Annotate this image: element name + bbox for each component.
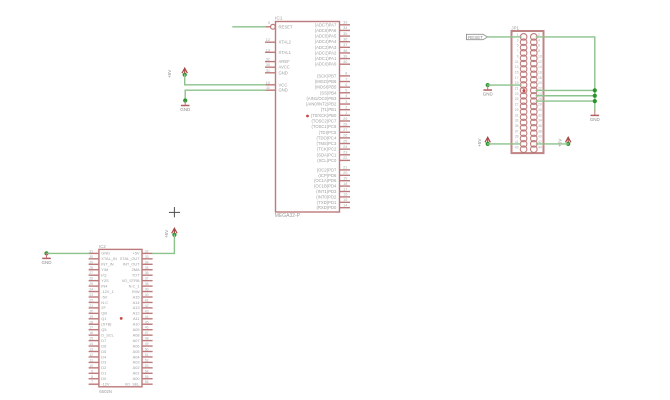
wire: JP1 pin 42 to +5V: [537, 143, 569, 145]
IC1 pin 9 /RESET (active-low bubble): [265, 21, 293, 29]
svg-text:GND: GND: [101, 251, 110, 256]
svg-text:INT_OUT: INT_OUT: [123, 262, 140, 267]
wire: JP1 pin 26 to ground rail: [536, 100, 595, 102]
svg-text:50: 50: [145, 348, 149, 352]
svg-text:28: 28: [343, 122, 347, 126]
junction ground rail / pin 26: [593, 99, 597, 103]
svg-text:(TOSC1)PC6: (TOSC1)PC6: [311, 124, 336, 129]
svg-text:53: 53: [145, 364, 149, 368]
supply +5V symbol at IC2: [164, 228, 177, 238]
IC1 port C pin names: [311, 119, 336, 163]
svg-text:38: 38: [538, 129, 542, 133]
svg-text:23: 23: [89, 293, 93, 297]
svg-text:XTAL_IN: XTAL_IN: [101, 256, 117, 261]
svg-text:(ADC0)PA0: (ADC0)PA0: [315, 62, 337, 67]
svg-text:8: 8: [345, 72, 347, 76]
IC2 origin mark: [120, 317, 123, 320]
IC2 left pin names: [101, 251, 117, 387]
svg-text:Y/M: Y/M: [101, 267, 108, 272]
svg-text:49: 49: [145, 342, 149, 346]
svg-text:6: 6: [345, 83, 347, 87]
svg-text:21: 21: [343, 166, 347, 170]
svg-text:-12V: -12V: [101, 382, 110, 387]
JP1 odd pin numbers: [515, 33, 519, 149]
svg-text:29: 29: [89, 260, 93, 264]
svg-text:35: 35: [343, 32, 347, 36]
junction ground rail / pin 24: [593, 94, 597, 98]
svg-text:(SDA)PC1: (SDA)PC1: [317, 152, 337, 157]
svg-text:+5V: +5V: [133, 251, 140, 256]
svg-text:43: 43: [515, 145, 519, 149]
svg-text:(T0/XCK)PB0: (T0/XCK)PB0: [311, 113, 337, 118]
svg-text:(TDI)PC5: (TDI)PC5: [319, 130, 337, 135]
svg-text:D4: D4: [101, 354, 107, 359]
svg-text:R/W: R/W: [132, 289, 140, 294]
svg-text:(STB): (STB): [101, 322, 112, 327]
svg-text:Q5: Q5: [101, 327, 106, 332]
junction at JP1 right +5V: [566, 142, 570, 146]
svg-text:48: 48: [145, 337, 149, 341]
svg-text:(MOSI)PB5: (MOSI)PB5: [315, 85, 337, 90]
svg-text:+5V: +5V: [167, 69, 172, 78]
svg-text:14: 14: [343, 204, 347, 208]
svg-text:37: 37: [145, 277, 149, 281]
svg-text:16: 16: [538, 70, 542, 74]
svg-text:18: 18: [343, 182, 347, 186]
svg-text:A07: A07: [133, 338, 140, 343]
svg-text:28: 28: [538, 103, 542, 107]
svg-text:9: 9: [91, 369, 93, 373]
IC1 reference designator label: [275, 15, 283, 21]
svg-text:34: 34: [343, 26, 347, 30]
svg-text:14: 14: [538, 65, 542, 69]
svg-text:QB: QB: [101, 311, 107, 316]
svg-text:14: 14: [89, 342, 93, 346]
svg-text:34: 34: [145, 260, 149, 264]
ground symbol below IC1: [180, 101, 191, 113]
IC1 origin mark: [306, 115, 309, 118]
svg-text:18: 18: [538, 76, 542, 80]
IC1 port C pins PC7-PC0 (29-22): [340, 121, 351, 160]
svg-text:(SCL)PC0: (SCL)PC0: [317, 158, 337, 163]
svg-text:35: 35: [145, 266, 149, 270]
svg-text:VCC: VCC: [279, 82, 288, 87]
svg-text:33: 33: [145, 255, 149, 259]
svg-text:36: 36: [538, 124, 542, 128]
svg-text:7: 7: [517, 49, 519, 53]
svg-text:GND: GND: [590, 117, 601, 122]
svg-text:(INT0)PD2: (INT0)PD2: [316, 194, 337, 199]
svg-text:(AIN1/OC0)PB3: (AIN1/OC0)PB3: [307, 96, 337, 101]
svg-text:38: 38: [145, 282, 149, 286]
svg-text:GND: GND: [279, 88, 288, 93]
svg-text:13: 13: [266, 48, 270, 52]
svg-text:55: 55: [145, 375, 149, 379]
IC2 body rectangle: [99, 249, 142, 386]
svg-text:IC2: IC2: [99, 244, 106, 249]
svg-text:20: 20: [89, 309, 93, 313]
svg-text:16: 16: [89, 331, 93, 335]
IC IC1 microcontroller MEGA32-P body: [276, 22, 340, 213]
wire: IC1 GND pin 11 to ground: [185, 90, 265, 100]
svg-text:32: 32: [538, 113, 542, 117]
svg-text:24: 24: [89, 288, 93, 292]
ground symbol left of JP1: [483, 85, 494, 97]
svg-text:22: 22: [89, 298, 93, 302]
svg-text:31: 31: [89, 249, 93, 253]
svg-text:12: 12: [89, 353, 93, 357]
svg-text:XTAL2: XTAL2: [279, 40, 292, 45]
IC2 left pins 1-24: [89, 253, 99, 384]
svg-text:A14: A14: [133, 300, 141, 305]
svg-text:24: 24: [343, 145, 347, 149]
svg-text:7: 7: [91, 380, 93, 384]
supply +5V symbol at IC1: [167, 68, 187, 78]
junction at IC2 ground: [44, 251, 48, 255]
svg-text:7: 7: [345, 77, 347, 81]
svg-text:10: 10: [538, 54, 542, 58]
svg-text:9: 9: [268, 21, 270, 25]
svg-text:(OC2)PD7: (OC2)PD7: [317, 167, 337, 172]
IC1 pin 11 GND: [265, 86, 288, 93]
svg-text:37: 37: [515, 129, 519, 133]
svg-text:+5V: +5V: [164, 229, 169, 238]
svg-text:15: 15: [89, 337, 93, 341]
svg-text:51: 51: [145, 353, 149, 357]
svg-text:12: 12: [538, 60, 542, 64]
svg-text:3: 3: [517, 38, 519, 42]
svg-text:10: 10: [266, 81, 270, 85]
svg-text:(SCK)PB7: (SCK)PB7: [317, 73, 337, 78]
svg-text:JP1: JP1: [511, 26, 519, 31]
svg-text:A08: A08: [133, 332, 140, 337]
IC2 right pin names: [120, 251, 141, 387]
svg-text:10: 10: [89, 364, 93, 368]
svg-text:(T1)PB1: (T1)PB1: [321, 107, 337, 112]
svg-text:39: 39: [343, 54, 347, 58]
svg-text:31: 31: [515, 113, 519, 117]
svg-text:(ADC3)PA3: (ADC3)PA3: [315, 45, 337, 50]
svg-text:-12V_1: -12V_1: [101, 289, 114, 294]
svg-text:A11: A11: [133, 316, 140, 321]
svg-text:20: 20: [343, 171, 347, 175]
IC1 port A pin names: [315, 22, 337, 66]
svg-text:6: 6: [538, 44, 540, 48]
IC1 port A pin numbers: [343, 21, 347, 64]
IC2 right pins 25-48: [142, 253, 153, 384]
svg-text:I/Q: I/Q: [101, 273, 106, 278]
svg-text:26: 26: [343, 134, 347, 138]
svg-text:29: 29: [515, 108, 519, 112]
svg-text:A04: A04: [133, 354, 141, 359]
sheet origin cross: [169, 207, 180, 217]
svg-text:30: 30: [538, 108, 542, 112]
svg-text:12: 12: [266, 38, 270, 42]
svg-text:(OC1A)PD5: (OC1A)PD5: [314, 178, 337, 183]
svg-text:26: 26: [89, 277, 93, 281]
JP1 odd pins 1-43 (left column pads): [520, 34, 527, 153]
IC1 port A pins PA7-PA0 (33-40): [340, 25, 351, 64]
svg-text:32: 32: [145, 249, 149, 253]
svg-text:I/O_STRB: I/O_STRB: [122, 278, 140, 283]
IC1 pin 12 XTAL2: [265, 38, 292, 45]
svg-text:A13: A13: [133, 305, 140, 310]
svg-text:A15: A15: [133, 294, 140, 299]
svg-text:6502N: 6502N: [99, 389, 112, 394]
svg-text:Q1: Q1: [101, 316, 106, 321]
junction at IC2 +5V: [172, 233, 176, 237]
svg-text:A05: A05: [133, 349, 140, 354]
IC1 port B pin numbers: [345, 72, 347, 115]
svg-text:54: 54: [145, 369, 149, 373]
wire: net to IC1 /RESET pin: [233, 26, 265, 28]
svg-text:(AIN0/INT2)PB2: (AIN0/INT2)PB2: [306, 102, 337, 107]
junction at IC1 ground: [183, 98, 187, 102]
svg-text:I/O_SEL: I/O_SEL: [125, 382, 141, 387]
svg-text:AREF: AREF: [279, 59, 291, 64]
svg-text:A12: A12: [133, 311, 140, 316]
svg-text:(TOSC2)PC7: (TOSC2)PC7: [311, 119, 336, 124]
svg-text:30: 30: [89, 255, 93, 259]
wire: +5V to IC2 +5V pin: [153, 235, 175, 254]
svg-text:39: 39: [515, 135, 519, 139]
IC1 port B pin names: [306, 73, 337, 117]
svg-text:N.C: N.C: [101, 300, 108, 305]
svg-text:4: 4: [345, 94, 347, 98]
JP1 reference designator label: [511, 26, 519, 31]
svg-text:15: 15: [343, 198, 347, 202]
svg-text:8: 8: [538, 49, 540, 53]
svg-text:RESET: RESET: [468, 35, 483, 40]
svg-text:23: 23: [515, 92, 519, 96]
svg-text:46: 46: [145, 326, 149, 330]
IC1 pin 30 AVCC: [265, 63, 290, 70]
svg-text:11: 11: [515, 60, 519, 64]
IC2 left pin numbers: [89, 249, 93, 384]
wire: JP1 pin 2 to ground rail: [536, 37, 595, 111]
svg-text:(ADC5)PA5: (ADC5)PA5: [315, 34, 337, 39]
svg-text:17: 17: [89, 326, 93, 330]
junction at JP1 left +5V: [486, 142, 490, 146]
svg-text:19: 19: [343, 177, 347, 181]
svg-text:GND: GND: [42, 260, 53, 265]
IC1 port C pin numbers: [343, 117, 347, 160]
IC1 port D pin numbers: [343, 166, 347, 208]
svg-text:D2: D2: [101, 365, 106, 370]
svg-text:23: 23: [343, 151, 347, 155]
svg-text:21: 21: [89, 304, 93, 308]
svg-text:5: 5: [345, 89, 347, 93]
svg-text:32: 32: [266, 58, 270, 62]
svg-text:35: 35: [515, 124, 519, 128]
svg-text:(INT1)PD3: (INT1)PD3: [316, 189, 337, 194]
IC2 right pin numbers: [145, 249, 149, 384]
svg-text:2F: 2F: [101, 305, 106, 310]
svg-text:-5V: -5V: [101, 294, 107, 299]
svg-text:(ADC6)PA6: (ADC6)PA6: [315, 28, 337, 33]
svg-text:(ADC1)PA1: (ADC1)PA1: [315, 56, 337, 61]
svg-text:25: 25: [343, 139, 347, 143]
svg-text:28: 28: [89, 266, 93, 270]
IC1 pin 10 VCC: [265, 81, 287, 88]
svg-text:(ICP)PD6: (ICP)PD6: [318, 173, 337, 178]
svg-text:38: 38: [343, 49, 347, 53]
svg-text:A03: A03: [133, 360, 140, 365]
svg-text:4: 4: [538, 38, 540, 42]
svg-text:A06: A06: [133, 343, 140, 348]
svg-text:36: 36: [343, 37, 347, 41]
svg-text:29: 29: [343, 117, 347, 121]
svg-text:+5V: +5V: [558, 138, 563, 147]
svg-text:17: 17: [343, 187, 347, 191]
wire: JP1 pin 22 to ground rail: [536, 89, 595, 91]
svg-text:(ADC7)PA7: (ADC7)PA7: [315, 22, 337, 27]
svg-text:A10: A10: [133, 322, 141, 327]
svg-text:D7: D7: [101, 338, 106, 343]
svg-text:8: 8: [91, 375, 93, 379]
wire: ground to IC2 GND pin: [47, 252, 89, 254]
svg-text:41: 41: [145, 298, 149, 302]
svg-text:+5V: +5V: [477, 138, 482, 147]
wire: JP1 pin 24 to ground rail: [536, 95, 595, 97]
svg-text:17: 17: [515, 76, 519, 80]
svg-text:3: 3: [345, 100, 347, 104]
svg-text:52: 52: [145, 358, 149, 362]
svg-text:XTAL1: XTAL1: [279, 50, 292, 55]
svg-text:44: 44: [538, 145, 542, 149]
svg-text:56: 56: [145, 380, 149, 384]
svg-text:Y2S: Y2S: [101, 278, 109, 283]
svg-text:D6: D6: [101, 343, 106, 348]
svg-text:RESET: RESET: [279, 24, 293, 29]
svg-text:45: 45: [145, 320, 149, 324]
svg-text:39: 39: [145, 288, 149, 292]
svg-text:XTAL_OUT: XTAL_OUT: [120, 256, 140, 261]
supply +5V symbol left of JP1: [477, 137, 490, 147]
svg-text:(TDO)PC4: (TDO)PC4: [317, 135, 337, 140]
svg-text:D0: D0: [101, 376, 107, 381]
svg-text:34: 34: [538, 119, 542, 123]
svg-text:27: 27: [515, 103, 519, 107]
JP1 even pin numbers: [538, 33, 542, 149]
svg-text:15: 15: [515, 70, 519, 74]
supply +5V symbol right of JP1: [558, 137, 571, 147]
svg-text:9: 9: [517, 54, 519, 58]
wire: +5V to JP1 pin 41: [488, 143, 521, 145]
svg-text:GND: GND: [180, 107, 191, 112]
IC1 value label MEGA32-P: [275, 213, 301, 219]
IC1 pin 13 XTAL1: [265, 48, 292, 55]
svg-text:INT_IN: INT_IN: [101, 262, 114, 267]
IC1 pin 32 AREF: [265, 58, 290, 65]
svg-text:16: 16: [343, 193, 347, 197]
svg-text:40: 40: [145, 293, 149, 297]
wire: ground to JP1 pin 19: [488, 84, 521, 86]
svg-text:(RXD)PD0: (RXD)PD0: [317, 205, 337, 210]
svg-text:37: 37: [343, 43, 347, 47]
ground symbol at IC2: [42, 253, 53, 265]
svg-text:40: 40: [538, 135, 542, 139]
svg-text:(MISO)PB6: (MISO)PB6: [315, 79, 337, 84]
svg-text:D3: D3: [101, 360, 106, 365]
svg-text:44: 44: [145, 315, 149, 319]
svg-text:(TMS)PC3: (TMS)PC3: [317, 141, 337, 146]
svg-text:A01: A01: [133, 371, 140, 376]
svg-text:21: 21: [515, 87, 519, 91]
svg-text:A09: A09: [133, 327, 140, 332]
connector JP1 body: [512, 31, 544, 153]
svg-text:(TXD)PD1: (TXD)PD1: [317, 200, 337, 205]
svg-text:13: 13: [89, 348, 93, 352]
svg-text:(ADC2)PA2: (ADC2)PA2: [315, 50, 337, 55]
svg-text:27: 27: [89, 271, 93, 275]
svg-text:25: 25: [515, 97, 519, 101]
IC2 reference designator label: [99, 244, 106, 249]
svg-text:5: 5: [517, 44, 519, 48]
svg-text:31: 31: [266, 69, 270, 73]
wire: +5V to IC1 VCC pin 10: [185, 75, 266, 85]
svg-text:MEGA32-P: MEGA32-P: [275, 213, 301, 219]
svg-text:AVCC: AVCC: [279, 65, 290, 70]
ground symbol right of JP1: [590, 110, 601, 122]
svg-text:47: 47: [145, 331, 149, 335]
svg-text:33: 33: [343, 21, 347, 25]
svg-text:1: 1: [345, 111, 347, 115]
svg-text:33: 33: [515, 119, 519, 123]
IC1 port D pins PD7-PD0 (21-14): [340, 170, 351, 208]
IC2 value label: [99, 389, 112, 394]
JP1 origin mark: [523, 89, 526, 92]
svg-text:19: 19: [89, 315, 93, 319]
svg-text:11: 11: [266, 86, 270, 90]
svg-text:GND: GND: [279, 70, 288, 75]
svg-text:20: 20: [538, 81, 542, 85]
svg-text:13: 13: [515, 65, 519, 69]
svg-text:N.C_1: N.C_1: [129, 283, 140, 288]
svg-text:36: 36: [145, 271, 149, 275]
svg-text:GND: GND: [483, 92, 494, 97]
svg-text:2MA: 2MA: [132, 267, 140, 272]
svg-text:18: 18: [89, 320, 93, 324]
IC1 pin 31 GND: [265, 69, 288, 76]
junction ground rail / pin 22: [593, 88, 597, 92]
svg-text:IC1: IC1: [275, 15, 283, 21]
wire: RESET flag to JP1 pin 1: [488, 36, 522, 38]
svg-text:TOT: TOT: [132, 273, 140, 278]
svg-text:43: 43: [145, 309, 149, 313]
svg-text:22: 22: [343, 156, 347, 160]
svg-text:2: 2: [345, 105, 347, 109]
svg-text:A00: A00: [133, 376, 141, 381]
svg-text:(ADC4)PA4: (ADC4)PA4: [315, 39, 337, 44]
junction at IC1 +5V: [183, 73, 187, 77]
svg-text:30: 30: [266, 63, 270, 67]
svg-text:D1: D1: [101, 371, 106, 376]
svg-text:27: 27: [343, 128, 347, 132]
junction at JP1 left ground: [486, 83, 490, 87]
IC1 port D pin names: [314, 167, 337, 210]
svg-text:D5: D5: [101, 349, 106, 354]
JP1 even pins 2-44 (right column pads): [531, 34, 538, 153]
svg-text:(SS)PB4: (SS)PB4: [320, 90, 337, 95]
svg-text:42: 42: [145, 304, 149, 308]
svg-text:IN4: IN4: [101, 283, 108, 288]
net label flag RESET: [467, 34, 488, 40]
svg-text:40: 40: [343, 60, 347, 64]
svg-text:(OC1B)PD4: (OC1B)PD4: [314, 184, 337, 189]
svg-text:(TCK)PC2: (TCK)PC2: [317, 147, 337, 152]
IC1 port B pins PB7-PB0 (8-1): [340, 76, 351, 115]
